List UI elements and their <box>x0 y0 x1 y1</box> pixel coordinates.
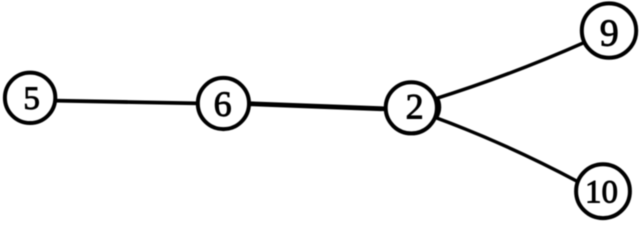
svg-text:9: 9 <box>600 13 619 55</box>
svg-text:5: 5 <box>23 81 40 117</box>
svg-text:2: 2 <box>406 87 424 127</box>
svg-text:6: 6 <box>214 84 232 124</box>
svg-text:10: 10 <box>585 175 618 211</box>
